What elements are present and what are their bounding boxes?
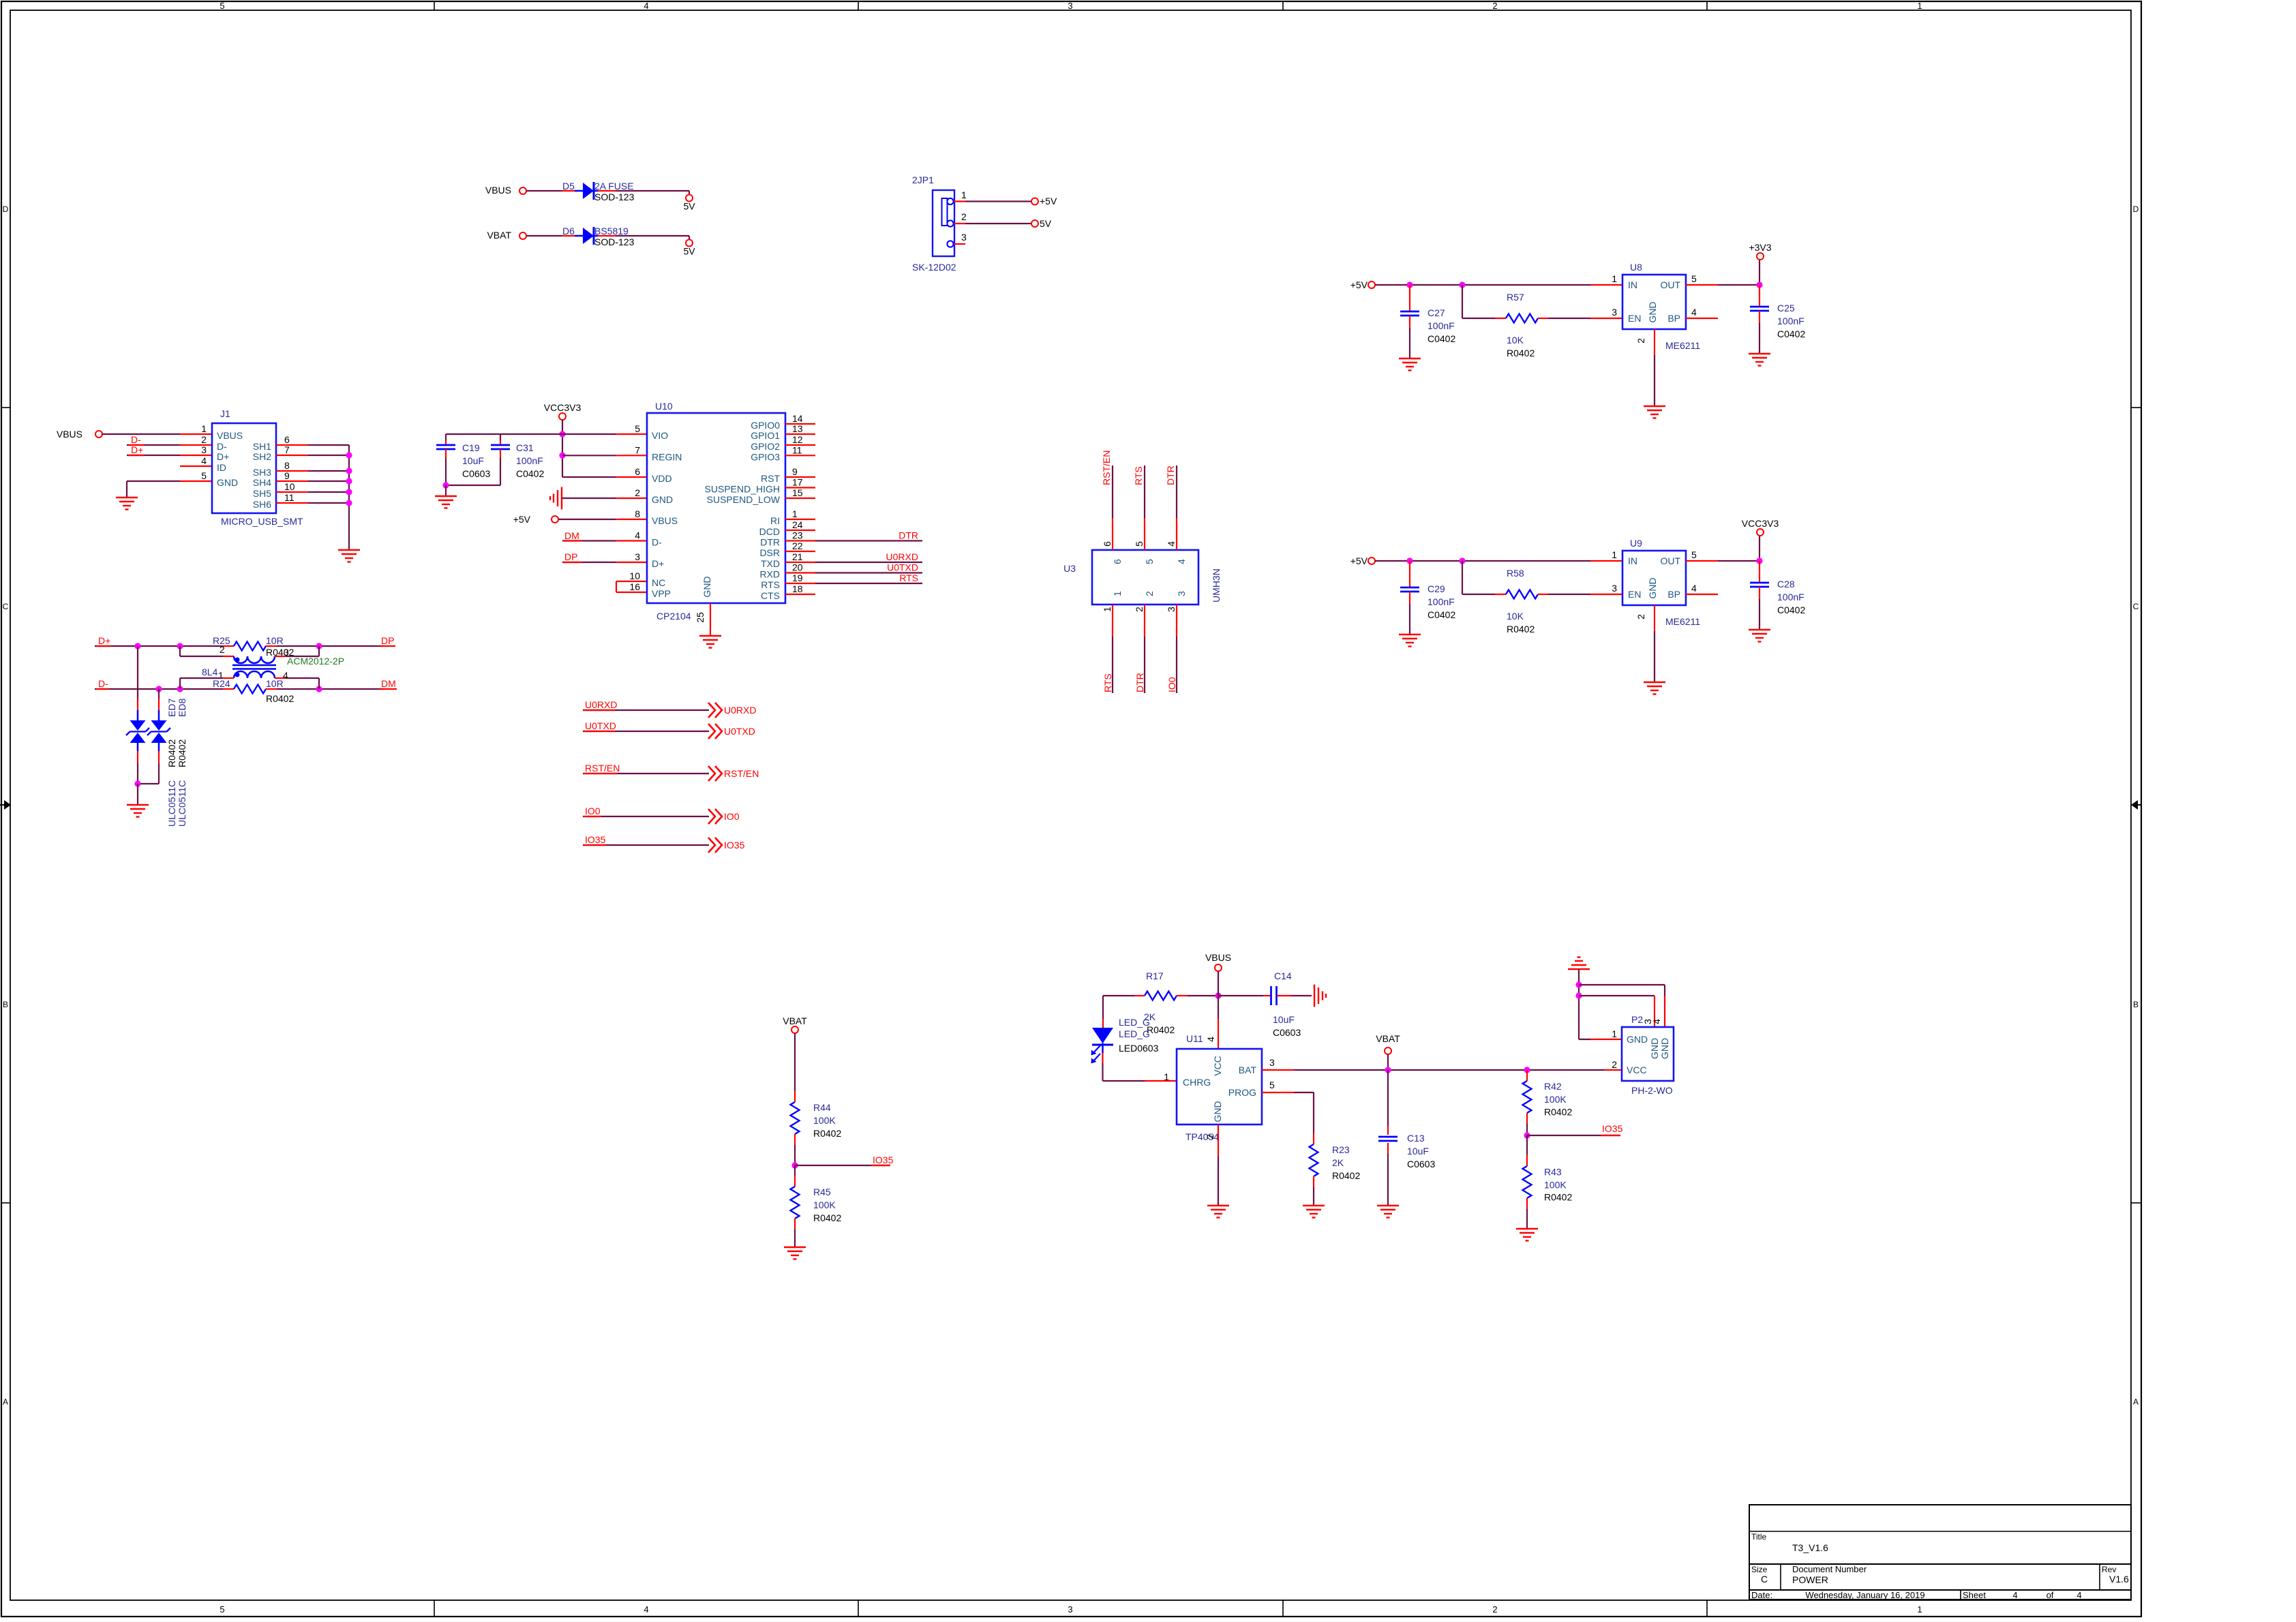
wire pin 17 SUSPEND_HIGH bbox=[785, 487, 815, 488]
power VBUS bbox=[1205, 952, 1231, 971]
svg-text:CHRG: CHRG bbox=[1183, 1077, 1211, 1088]
wire D5 cathode to 5V bbox=[598, 191, 689, 195]
svg-text:100nF: 100nF bbox=[1428, 596, 1455, 607]
wire R58 to EN pin bbox=[1538, 594, 1622, 595]
svg-text:8L4: 8L4 bbox=[202, 667, 218, 677]
svg-text:U8: U8 bbox=[1630, 262, 1642, 273]
capacitor C13 10uF bbox=[1378, 1070, 1435, 1206]
svg-text:ME6211: ME6211 bbox=[1665, 340, 1700, 351]
svg-text:RST/EN: RST/EN bbox=[1101, 450, 1112, 485]
resistor R24 10R bbox=[213, 678, 294, 704]
junction bbox=[1385, 1067, 1391, 1073]
wire SH3 bbox=[276, 470, 349, 472]
svg-text:4: 4 bbox=[644, 1, 648, 11]
title block bbox=[1749, 1505, 2131, 1600]
svg-text:3: 3 bbox=[1612, 583, 1617, 594]
svg-text:U0TXD: U0TXD bbox=[585, 720, 616, 731]
net IO35 wire bbox=[583, 834, 709, 845]
junction bbox=[316, 643, 322, 649]
svg-text:R0402: R0402 bbox=[813, 1128, 841, 1139]
svg-text:VPP: VPP bbox=[652, 588, 671, 599]
svg-text:J1: J1 bbox=[220, 408, 230, 419]
svg-text:100nF: 100nF bbox=[1428, 320, 1455, 331]
junction bbox=[134, 643, 140, 649]
wire R25 to DP bbox=[266, 635, 395, 646]
junction bbox=[1575, 981, 1582, 988]
svg-text:100nF: 100nF bbox=[516, 455, 543, 466]
wire U0TXD net bbox=[815, 562, 922, 573]
svg-text:R45: R45 bbox=[813, 1187, 831, 1197]
wire 2JP1 pin1 to +5V bbox=[954, 200, 1031, 202]
svg-text:D-: D- bbox=[98, 678, 108, 689]
svg-text:BP: BP bbox=[1667, 589, 1680, 600]
net RTS wire (top) bbox=[1133, 465, 1145, 550]
wire pin 21 TXD bbox=[785, 562, 815, 563]
svg-text:2: 2 bbox=[201, 434, 207, 445]
wire R23 to ground bbox=[1313, 1176, 1314, 1206]
led LED_G LED0603 bbox=[1091, 1017, 1159, 1064]
svg-text:4: 4 bbox=[644, 1604, 648, 1615]
svg-text:Rev: Rev bbox=[2102, 1565, 2116, 1574]
power VBAT bbox=[1376, 1033, 1400, 1054]
switch 2JP1 SK-12D02 bbox=[912, 174, 967, 273]
wire PROG to R23 bbox=[1262, 1092, 1314, 1144]
wire U8 GND pin bbox=[1654, 329, 1655, 406]
wire NC/VPP stubs bbox=[616, 581, 647, 592]
svg-text:23: 23 bbox=[792, 530, 803, 541]
svg-text:OUT: OUT bbox=[1660, 555, 1680, 566]
ground bbox=[1399, 358, 1421, 371]
svg-text:IN: IN bbox=[1628, 279, 1637, 290]
wire pin 12 GPIO2 bbox=[785, 444, 815, 446]
svg-text:1: 1 bbox=[201, 423, 207, 434]
svg-text:CP2104: CP2104 bbox=[656, 611, 691, 622]
svg-text:GND: GND bbox=[1647, 301, 1658, 322]
svg-text:LED_G: LED_G bbox=[1119, 1028, 1150, 1039]
svg-text:15: 15 bbox=[792, 487, 803, 498]
svg-text:GND: GND bbox=[1647, 577, 1658, 598]
svg-text:RI: RI bbox=[770, 515, 780, 526]
svg-text:4: 4 bbox=[635, 530, 640, 541]
ground bbox=[699, 636, 721, 648]
svg-text:SH5: SH5 bbox=[253, 488, 271, 499]
svg-text:+5V: +5V bbox=[1350, 555, 1368, 566]
svg-text:9: 9 bbox=[284, 470, 290, 481]
svg-text:11: 11 bbox=[284, 492, 294, 503]
junction bbox=[155, 686, 162, 692]
ic U11 TP4054 bbox=[1164, 1033, 1275, 1142]
power 5V bbox=[683, 240, 695, 257]
svg-text:7: 7 bbox=[635, 444, 640, 455]
svg-text:2: 2 bbox=[635, 487, 640, 498]
svg-text:POWER: POWER bbox=[1792, 1574, 1828, 1585]
svg-text:4: 4 bbox=[2076, 1590, 2081, 1600]
svg-text:1: 1 bbox=[1612, 549, 1617, 560]
svg-text:D: D bbox=[2133, 204, 2139, 214]
svg-text:GND: GND bbox=[652, 494, 673, 505]
svg-text:DM: DM bbox=[381, 678, 396, 689]
svg-text:18: 18 bbox=[792, 583, 803, 594]
svg-text:R0402: R0402 bbox=[1507, 624, 1535, 634]
svg-text:3: 3 bbox=[1176, 591, 1187, 596]
svg-text:ULC0511C: ULC0511C bbox=[166, 780, 177, 827]
junction bbox=[1459, 281, 1465, 288]
net D- wire bbox=[95, 678, 234, 689]
svg-text:GND: GND bbox=[217, 477, 238, 488]
svg-text:VBAT: VBAT bbox=[487, 230, 511, 241]
wire pin 11 GPIO3 bbox=[785, 455, 815, 456]
svg-text:2JP1: 2JP1 bbox=[912, 174, 934, 185]
svg-text:6: 6 bbox=[1112, 559, 1123, 564]
svg-text:VIO: VIO bbox=[652, 430, 668, 441]
svg-text:R58: R58 bbox=[1507, 568, 1524, 579]
svg-text:D+: D+ bbox=[131, 444, 143, 455]
wire SH4 bbox=[276, 480, 349, 482]
svg-text:GPIO0: GPIO0 bbox=[751, 420, 780, 431]
svg-text:BS5819: BS5819 bbox=[594, 226, 629, 236]
svg-text:T3_V1.6: T3_V1.6 bbox=[1792, 1542, 1828, 1553]
svg-text:R0402: R0402 bbox=[266, 693, 294, 704]
svg-text:VDD: VDD bbox=[652, 473, 672, 484]
wire pin 14 GPIO0 bbox=[785, 423, 815, 425]
svg-text:19: 19 bbox=[792, 572, 803, 583]
wire pin 19 RTS bbox=[785, 583, 815, 584]
svg-text:Title: Title bbox=[1751, 1532, 1767, 1542]
junction bbox=[1459, 557, 1465, 564]
wire pin 24 DCD bbox=[785, 530, 815, 531]
wire pin 18 CTS bbox=[785, 594, 815, 595]
label ED7 ED8 bbox=[166, 699, 187, 717]
junction bbox=[1406, 281, 1413, 288]
svg-text:3: 3 bbox=[201, 444, 207, 455]
svg-text:C0603: C0603 bbox=[1407, 1159, 1435, 1169]
svg-text:D-: D- bbox=[652, 537, 662, 548]
power VBAT bbox=[783, 1015, 807, 1033]
svg-text:D5: D5 bbox=[562, 181, 575, 192]
svg-text:2: 2 bbox=[961, 211, 967, 222]
wire VIO bbox=[446, 433, 647, 435]
svg-text:5V: 5V bbox=[683, 246, 695, 257]
power VBUS bbox=[57, 429, 102, 440]
svg-text:SH4: SH4 bbox=[253, 477, 271, 488]
svg-text:3: 3 bbox=[1068, 1604, 1072, 1615]
svg-text:D6: D6 bbox=[562, 226, 575, 236]
svg-text:6: 6 bbox=[635, 466, 640, 477]
svg-text:4: 4 bbox=[1691, 583, 1697, 594]
wire to ground bbox=[445, 485, 447, 496]
svg-text:+5V: +5V bbox=[1350, 279, 1368, 290]
svg-text:VBUS: VBUS bbox=[1205, 952, 1231, 963]
net IO35 wire bbox=[795, 1154, 894, 1165]
wire GND pin25 bbox=[695, 603, 710, 636]
svg-text:UMH3N: UMH3N bbox=[1211, 568, 1222, 602]
wire choke bottom branch bbox=[180, 678, 234, 689]
ground bbox=[338, 550, 360, 562]
net D+ wire to J1 pin3 bbox=[127, 444, 212, 455]
svg-text:2: 2 bbox=[1205, 1134, 1215, 1139]
ground bbox=[435, 496, 457, 508]
svg-text:VBUS: VBUS bbox=[217, 430, 243, 441]
svg-text:4: 4 bbox=[283, 670, 288, 681]
svg-text:C19: C19 bbox=[462, 442, 480, 453]
svg-text:100K: 100K bbox=[813, 1199, 836, 1210]
svg-text:100K: 100K bbox=[1544, 1180, 1567, 1191]
junction bbox=[1756, 281, 1762, 288]
diode D6 bbox=[562, 226, 635, 247]
svg-text:RST: RST bbox=[761, 473, 780, 484]
net DTR wire (bottom) bbox=[1134, 605, 1145, 693]
junction bbox=[1406, 557, 1413, 564]
svg-text:D-: D- bbox=[131, 434, 141, 445]
svg-text:A: A bbox=[3, 1397, 8, 1407]
wire R42 to junction bbox=[1526, 1113, 1528, 1135]
svg-text:3: 3 bbox=[635, 551, 640, 562]
svg-text:R0402: R0402 bbox=[1147, 1024, 1175, 1035]
svg-text:5: 5 bbox=[220, 1, 224, 11]
junction bbox=[1756, 557, 1762, 564]
svg-text:LED0603: LED0603 bbox=[1119, 1043, 1159, 1054]
junction bbox=[559, 453, 565, 459]
svg-text:5: 5 bbox=[1134, 541, 1145, 547]
svg-text:C0402: C0402 bbox=[1428, 609, 1455, 620]
wire pin 13 GPIO1 bbox=[785, 433, 815, 435]
svg-text:NC: NC bbox=[652, 577, 665, 588]
svg-text:RXD: RXD bbox=[759, 569, 780, 580]
svg-text:R0402: R0402 bbox=[1332, 1170, 1360, 1181]
svg-text:10uF: 10uF bbox=[1407, 1146, 1429, 1157]
wire GND pin5 bbox=[127, 481, 212, 498]
wire ID stub bbox=[180, 465, 212, 467]
svg-text:5: 5 bbox=[1144, 559, 1155, 564]
svg-text:IN: IN bbox=[1628, 555, 1637, 566]
svg-text:B: B bbox=[3, 1000, 8, 1009]
net RST/EN wire (top) bbox=[1101, 450, 1113, 550]
svg-text:1: 1 bbox=[1917, 1604, 1922, 1615]
svg-text:5: 5 bbox=[1691, 273, 1697, 284]
svg-text:C0402: C0402 bbox=[1777, 605, 1805, 615]
svg-text:C14: C14 bbox=[1274, 970, 1292, 981]
svg-text:2: 2 bbox=[1492, 1, 1497, 11]
svg-text:VBUS: VBUS bbox=[652, 515, 678, 526]
svg-text:REGIN: REGIN bbox=[652, 451, 682, 462]
wire pin 9 RST bbox=[785, 476, 815, 478]
signal ground bbox=[550, 487, 562, 510]
svg-text:2: 2 bbox=[1635, 338, 1646, 343]
svg-text:SOD-123: SOD-123 bbox=[594, 192, 635, 202]
wire U8 OUT to +3V3 bbox=[1686, 260, 1759, 285]
svg-text:C0402: C0402 bbox=[516, 468, 544, 479]
wire VBUS to VCC pin bbox=[1218, 996, 1219, 1049]
label R0402 R0402 bbox=[166, 739, 187, 767]
svg-text:ULC0511C: ULC0511C bbox=[177, 780, 187, 827]
svg-text:DP: DP bbox=[564, 551, 577, 562]
svg-text:20: 20 bbox=[792, 562, 803, 573]
svg-text:+3V3: +3V3 bbox=[1749, 242, 1771, 253]
svg-text:D: D bbox=[3, 204, 9, 214]
power +5V bbox=[1350, 279, 1375, 290]
svg-text:14: 14 bbox=[792, 413, 803, 424]
net D- wire to J1 pin2 bbox=[127, 434, 212, 445]
svg-text:PROG: PROG bbox=[1228, 1087, 1256, 1098]
wire choke top branch bbox=[180, 646, 234, 656]
svg-text:VCC3V3: VCC3V3 bbox=[1742, 518, 1779, 529]
ground bbox=[1399, 634, 1421, 647]
svg-text:10: 10 bbox=[629, 570, 640, 581]
ground bbox=[1516, 1229, 1538, 1241]
svg-text:C13: C13 bbox=[1407, 1133, 1425, 1144]
wire D5 anode bbox=[526, 190, 575, 192]
svg-text:C29: C29 bbox=[1428, 583, 1445, 594]
svg-text:100nF: 100nF bbox=[1777, 316, 1804, 326]
svg-text:10R: 10R bbox=[266, 635, 284, 646]
svg-text:R0402: R0402 bbox=[1544, 1192, 1572, 1203]
svg-text:C: C bbox=[3, 602, 9, 611]
svg-text:GND: GND bbox=[701, 576, 712, 597]
svg-text:OUT: OUT bbox=[1660, 279, 1680, 290]
wire R24 to DM bbox=[266, 678, 397, 689]
ground bbox=[1644, 406, 1665, 418]
junction bbox=[1215, 992, 1221, 998]
svg-text:VBUS: VBUS bbox=[57, 429, 82, 440]
wire SH1 bbox=[276, 444, 349, 446]
wire U0RXD net bbox=[815, 551, 922, 562]
svg-text:10K: 10K bbox=[1507, 335, 1524, 346]
capacitor C25 100nF bbox=[1750, 285, 1805, 354]
svg-text:MICRO_USB_SMT: MICRO_USB_SMT bbox=[221, 516, 303, 527]
wire R17 right to VBUS bbox=[1188, 995, 1218, 996]
power VCC3V3 bbox=[1742, 518, 1779, 536]
off-page connector U0RXD bbox=[708, 703, 756, 718]
wire D6 anode bbox=[526, 235, 575, 236]
capacitor C27 100nF bbox=[1400, 285, 1455, 358]
wire R17 left to LED bbox=[1103, 996, 1134, 1028]
svg-text:5V: 5V bbox=[1040, 218, 1052, 229]
svg-text:D+: D+ bbox=[652, 558, 664, 569]
svg-text:5: 5 bbox=[635, 423, 640, 434]
svg-text:5: 5 bbox=[201, 470, 207, 481]
svg-text:8: 8 bbox=[635, 508, 640, 519]
wire VBUS pin8 bbox=[558, 519, 647, 520]
wire pin 22 DSR bbox=[785, 551, 815, 552]
junction bbox=[346, 489, 352, 495]
wire R45 to ground bbox=[794, 1219, 796, 1247]
svg-text:DM: DM bbox=[564, 530, 579, 541]
svg-text:DTR: DTR bbox=[1165, 465, 1176, 485]
connector J1 MICRO_USB_SMT bbox=[201, 408, 303, 527]
svg-text:2: 2 bbox=[1612, 1059, 1617, 1070]
net DM wire to D- pin bbox=[562, 530, 647, 541]
svg-text:C0603: C0603 bbox=[462, 468, 490, 479]
capacitor C28 100nF bbox=[1750, 561, 1805, 630]
wire pin 1 RI bbox=[785, 519, 815, 520]
svg-text:6: 6 bbox=[284, 434, 290, 445]
resistor R45 100K bbox=[791, 1165, 842, 1223]
ground bbox=[1644, 682, 1665, 694]
svg-text:ED7: ED7 bbox=[166, 699, 177, 717]
svg-text:U0TXD: U0TXD bbox=[887, 562, 918, 573]
svg-text:SH6: SH6 bbox=[253, 499, 271, 510]
svg-text:2: 2 bbox=[1144, 591, 1155, 596]
svg-text:IO0: IO0 bbox=[1166, 677, 1177, 692]
svg-text:Sheet: Sheet bbox=[1963, 1590, 1986, 1600]
svg-text:ACM2012-2P: ACM2012-2P bbox=[287, 656, 344, 667]
ground bbox=[1207, 1206, 1229, 1218]
ground bbox=[1749, 354, 1770, 366]
wire ground rail to P2 bbox=[1579, 969, 1622, 1039]
svg-text:12: 12 bbox=[792, 434, 803, 445]
svg-text:C28: C28 bbox=[1777, 579, 1795, 590]
tvs diode ED8 ULC0511C bbox=[138, 689, 170, 784]
wire VCC3V3 rail bbox=[562, 420, 647, 477]
wire to ground bbox=[137, 784, 138, 805]
svg-text:GND: GND bbox=[1659, 1038, 1670, 1059]
svg-text:10R: 10R bbox=[266, 678, 284, 689]
svg-text:VCC: VCC bbox=[1627, 1065, 1647, 1075]
svg-text:4: 4 bbox=[1691, 307, 1697, 318]
wire VBAT down bbox=[1387, 1054, 1389, 1070]
svg-text:R17: R17 bbox=[1146, 970, 1164, 981]
power +5V bbox=[1350, 555, 1375, 566]
svg-text:10: 10 bbox=[284, 481, 295, 492]
svg-text:C0603: C0603 bbox=[1273, 1027, 1301, 1038]
svg-text:IO0: IO0 bbox=[585, 806, 601, 816]
connector P2 PH-2-WO bbox=[1612, 1014, 1674, 1096]
svg-text:100K: 100K bbox=[813, 1115, 836, 1126]
svg-text:R57: R57 bbox=[1507, 292, 1524, 303]
label ULC0511C ULC0511C bbox=[166, 780, 187, 827]
svg-text:IO35: IO35 bbox=[1602, 1123, 1623, 1134]
svg-text:4: 4 bbox=[1651, 1019, 1662, 1024]
resistor R44 100K bbox=[791, 1102, 842, 1139]
svg-text:21: 21 bbox=[792, 551, 803, 562]
svg-text:VCC: VCC bbox=[1212, 1056, 1223, 1076]
svg-text:GND: GND bbox=[1627, 1034, 1648, 1045]
svg-text:1: 1 bbox=[1164, 1071, 1169, 1082]
svg-text:100nF: 100nF bbox=[1777, 592, 1804, 602]
svg-text:U0RXD: U0RXD bbox=[724, 705, 756, 716]
svg-text:9: 9 bbox=[792, 466, 798, 477]
wire choke bottom to DM bbox=[275, 678, 319, 689]
signal ground bbox=[1314, 985, 1326, 1007]
junction bbox=[177, 643, 183, 649]
wire GND pin2 bbox=[562, 498, 647, 499]
svg-text:GPIO3: GPIO3 bbox=[751, 451, 780, 462]
svg-text:16: 16 bbox=[629, 581, 640, 592]
junction bbox=[791, 1162, 798, 1168]
svg-text:SK-12D02: SK-12D02 bbox=[912, 262, 956, 273]
svg-text:GND: GND bbox=[1212, 1101, 1223, 1122]
net DTR wire (top) bbox=[1165, 465, 1177, 550]
svg-text:R0402: R0402 bbox=[177, 739, 187, 767]
wire R44 to junction bbox=[794, 1134, 796, 1165]
svg-text:2A FUSE: 2A FUSE bbox=[594, 181, 634, 192]
ground bbox=[784, 1247, 806, 1259]
svg-text:U11: U11 bbox=[1186, 1033, 1203, 1044]
svg-text:11: 11 bbox=[792, 444, 802, 455]
svg-text:Size: Size bbox=[1751, 1565, 1768, 1574]
wire U8 BP stub bbox=[1686, 318, 1718, 319]
junction bbox=[316, 686, 322, 692]
power +3V3 bbox=[1749, 242, 1771, 260]
resistor R42 100K bbox=[1523, 1070, 1573, 1118]
svg-text:ED8: ED8 bbox=[177, 699, 187, 717]
tvs diode ED7 ULC0511C bbox=[126, 646, 149, 784]
svg-text:V1.6: V1.6 bbox=[2109, 1574, 2129, 1585]
wire VBAT to R44 bbox=[794, 1033, 796, 1102]
svg-text:17: 17 bbox=[792, 477, 803, 488]
junction bbox=[1524, 1132, 1530, 1138]
svg-text:DTR: DTR bbox=[760, 537, 780, 548]
